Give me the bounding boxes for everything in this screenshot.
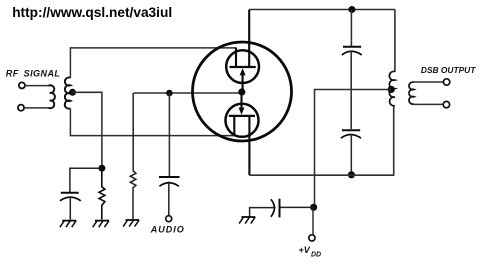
node T2 center tap bbox=[388, 86, 395, 93]
node T1 center tap bbox=[69, 89, 76, 96]
ground G2 bbox=[93, 221, 109, 228]
capacitor C5 (supply bypass) bbox=[250, 199, 280, 218]
node gates junction bbox=[238, 88, 245, 95]
capacitor C4 (balance, lower) bbox=[341, 130, 361, 138]
transistor Q2 envelope bbox=[226, 104, 259, 137]
wire top rail (Q1 drain to T2) bbox=[249, 9, 395, 11]
transistor Q1 envelope bbox=[226, 50, 259, 83]
wire C4 down to bottom rail bbox=[350, 135, 352, 175]
wire junction to capacitor C2 bbox=[168, 93, 170, 177]
label RF SIGNAL bbox=[6, 69, 61, 79]
transformer T2 secondary winding bbox=[409, 82, 414, 104]
svg-text:RF SIGNAL: RF SIGNAL bbox=[6, 69, 61, 79]
terminal RF input upper bbox=[19, 82, 25, 88]
wire T1 secondary bottom to Q2 source bbox=[70, 108, 234, 135]
wire T2 secondary top lead bbox=[414, 81, 444, 83]
transistor Q2 gate arrow bbox=[239, 92, 245, 115]
transistor Q1 channel and leads bbox=[230, 10, 256, 68]
terminal DSB output lower bbox=[443, 101, 449, 107]
wire bottom rail (Q2 drain to T2) bbox=[249, 105, 393, 175]
wire T2 secondary bottom lead bbox=[414, 103, 444, 105]
svg-text:http://www.qsl.net/va3iul: http://www.qsl.net/va3iul bbox=[12, 5, 172, 20]
capacitor C3 (balance, upper) bbox=[342, 47, 362, 55]
wire gate bus (R2 / C2 / gates) bbox=[134, 92, 242, 94]
capacitor C2 (audio coupling) bbox=[159, 177, 180, 216]
resistor R2 (gate bias) bbox=[130, 93, 136, 219]
transistor Q2 channel and leads bbox=[229, 116, 255, 175]
terminal AUDIO input bbox=[166, 216, 172, 222]
node top rail / C3 junction bbox=[348, 6, 355, 13]
transformer T1 secondary winding bbox=[65, 77, 71, 108]
terminal RF input lower bbox=[18, 105, 24, 111]
svg-text:DSB OUTPUT: DSB OUTPUT bbox=[421, 65, 476, 75]
wire top rail right corner down to T2 primary bbox=[394, 10, 396, 73]
wire RF lower terminal to T1 primary bbox=[24, 107, 51, 109]
transformer T2 primary winding bbox=[389, 71, 395, 105]
terminal +VDD bbox=[309, 235, 315, 241]
transformer T1 primary winding bbox=[49, 85, 55, 108]
svg-text:+V: +V bbox=[299, 245, 311, 255]
node bias junction A bbox=[98, 165, 105, 172]
ground G1 bbox=[60, 221, 76, 228]
wire +VDD junction to C5 bbox=[280, 206, 314, 208]
capacitor C1 (source bypass) bbox=[60, 193, 81, 220]
wire C3 to C4 bbox=[350, 51, 352, 129]
wire top rail dot down to C3 bbox=[350, 10, 352, 47]
wire T1 center tap down to bias node bbox=[72, 92, 102, 168]
wire RF upper terminal to T1 primary bbox=[25, 85, 51, 87]
terminal DSB output upper bbox=[443, 79, 449, 85]
label AUDIO bbox=[150, 225, 185, 235]
label +VDD bbox=[299, 245, 322, 259]
node bottom rail / C4 junction bbox=[348, 171, 355, 178]
wire +VDD junction down to terminal bbox=[312, 207, 314, 235]
wire +VDD feed to T2 center tap bbox=[315, 90, 392, 208]
dual FET package can U1 bbox=[193, 42, 292, 141]
svg-text:AUDIO: AUDIO bbox=[150, 225, 185, 235]
node +VDD junction bbox=[310, 204, 317, 211]
label DSB OUTPUT bbox=[421, 65, 476, 75]
ground G4 bbox=[239, 217, 255, 224]
resistor R1 (source bias) bbox=[99, 168, 105, 219]
svg-text:DD: DD bbox=[311, 252, 321, 259]
node audio coupling junction bbox=[166, 90, 173, 97]
url header text bbox=[12, 5, 172, 20]
transistor Q1 gate arrow bbox=[240, 68, 246, 92]
wire T1 secondary top to Q1 source bbox=[70, 48, 236, 78]
ground G3 bbox=[123, 220, 139, 227]
wire node A to capacitor C1 bbox=[70, 168, 102, 192]
